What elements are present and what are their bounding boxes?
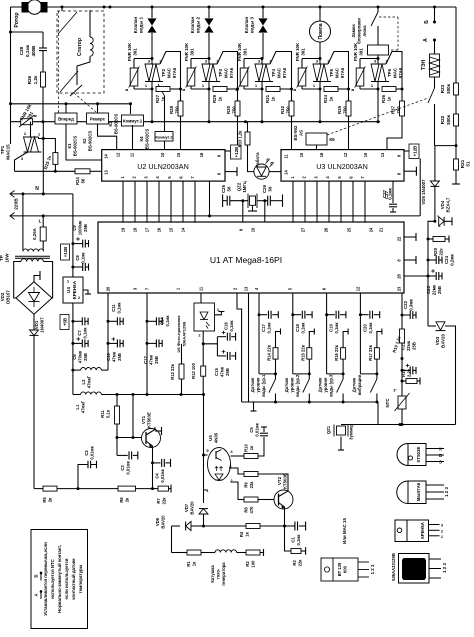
svg-text:L2: L2 — [81, 379, 86, 385]
svg-text:R27: R27 — [155, 94, 160, 103]
resistor R1 1k — [172, 552, 188, 554]
svg-text:МАС: МАС — [335, 67, 340, 78]
optocoupler U5 4N35 — [208, 448, 231, 481]
svg-text:300к: 300к — [446, 114, 451, 125]
svg-text:U6 Фото-приемник: U6 Фото-приемник — [176, 316, 181, 353]
svg-text:10: 10 — [363, 152, 368, 157]
svg-text:C12: C12 — [143, 355, 148, 363]
capacitor C20 0,1mk — [360, 314, 368, 316]
pump M2 — [319, 6, 322, 9]
wire VD1 down to R5 — [33, 336, 35, 489]
svg-text:BZX4,7: BZX4,7 — [446, 197, 451, 212]
capacitor C1 0,1mk — [285, 525, 295, 527]
stator drop right — [109, 6, 112, 9]
resistor R4 1k — [246, 524, 260, 529]
svg-text:C18: C18 — [295, 323, 300, 331]
svg-text:0,1мк: 0,1мк — [229, 320, 234, 332]
svg-text:КТ503Е: КТ503Е — [416, 447, 421, 463]
svg-text:u: u — [292, 88, 297, 91]
resistor R33 1,2k — [245, 132, 250, 145]
ground tacho — [260, 552, 264, 554]
capacitor C2 0,01mk — [78, 465, 88, 489]
resistor R12 22k — [181, 344, 183, 364]
svg-text:5,1к: 5,1к — [106, 409, 111, 418]
svg-text:МАС: МАС — [393, 67, 398, 78]
svg-text:22к: 22к — [439, 248, 444, 256]
svg-text:15: 15 — [168, 227, 173, 232]
svg-text:R26: R26 — [27, 75, 32, 84]
svg-text:R18: R18 — [401, 368, 406, 376]
motor M1 rotor — [27, 0, 41, 14]
svg-text:КРЕН5А: КРЕН5А — [72, 280, 77, 299]
svg-text:R10: R10 — [244, 443, 249, 451]
svg-text:К1: К1 — [67, 143, 72, 149]
tacho generator coil — [201, 552, 215, 554]
pin22 ground stub — [404, 236, 413, 238]
wire LED to U3 pin14 — [269, 171, 281, 173]
wire U1 pin2 down — [237, 293, 242, 402]
node top TR4 — [261, 57, 264, 60]
svg-text:C7: C7 — [77, 330, 82, 336]
ground R21 — [455, 170, 457, 184]
svg-text:C5: C5 — [249, 427, 254, 433]
svg-text:C11: C11 — [111, 304, 116, 312]
svg-text:R3: R3 — [292, 560, 297, 566]
transistor VT2 KT503E — [274, 490, 293, 509]
wire U1 pin13 down — [248, 293, 250, 402]
wire sensor jog 3 — [327, 373, 344, 375]
svg-text:тахо-: тахо- — [216, 568, 221, 579]
svg-text:Реверс: Реверс — [90, 116, 106, 121]
wire sensor jog 1 — [259, 373, 276, 375]
switch sensor 3 — [337, 379, 344, 393]
svg-text:ТР4: ТР4 — [271, 68, 276, 77]
triac TR6 MAC97A6 — [377, 59, 379, 65]
svg-text:25В: 25В — [437, 286, 442, 294]
wire left bus — [10, 7, 12, 144]
svg-text:уровня: уровня — [256, 377, 261, 392]
svg-text:1к: 1к — [329, 96, 334, 101]
svg-text:R6: R6 — [119, 497, 124, 503]
svg-text:BAV20: BAV20 — [161, 515, 166, 529]
wire VT2 emitter — [284, 512, 286, 526]
svg-text:BAV20: BAV20 — [190, 501, 195, 515]
svg-text:750: 750 — [343, 106, 348, 114]
wire emitter bus — [204, 525, 247, 527]
crystal QZ2 1MHz — [250, 196, 256, 205]
capacitor C25 56 — [222, 194, 224, 207]
wire U1 pin11 to U6 — [200, 293, 202, 303]
svg-text:Датчик: Датчик — [318, 377, 323, 392]
wire TR6 bottom node — [360, 88, 378, 90]
capacitor C27 0,1mk — [392, 181, 394, 203]
svg-text:47мк: 47мк — [220, 366, 225, 377]
svg-text:97А6: 97А6 — [229, 67, 234, 78]
svg-text:FNR 10K: FNR 10K — [295, 42, 300, 61]
svg-text:10: 10 — [160, 152, 165, 157]
dashed link reverse — [74, 93, 96, 112]
triac TR2 MAC97A6 — [151, 59, 153, 65]
svg-text:R21: R21 — [460, 159, 465, 168]
wire K1 contact drop — [65, 104, 67, 113]
wire right bus upper — [455, 7, 457, 83]
svg-text:К: К — [439, 447, 442, 452]
wire U2 to L rail — [209, 181, 211, 216]
capacitor C10 47mk — [107, 342, 110, 345]
IC U3 ULN2003AN — [281, 150, 404, 182]
optocoupler U6 photo receiver — [194, 303, 215, 331]
svg-text:К3: К3 — [108, 121, 113, 127]
resistor R31 1k — [266, 87, 280, 92]
svg-text:КРЕН5А: КРЕН5А — [420, 522, 425, 539]
svg-text:ТР1: ТР1 — [0, 145, 5, 154]
wire VT1 base — [132, 395, 134, 438]
svg-text:Мас97А6: Мас97А6 — [416, 482, 421, 501]
resistor R18 2,2k — [401, 370, 403, 381]
switch sensor 1 — [269, 379, 276, 393]
svg-text:МАС: МАС — [224, 67, 229, 78]
resistor R9 22k — [229, 468, 244, 474]
resistor R2 100 — [246, 550, 260, 555]
dashed link K5 to heater switch — [327, 98, 428, 135]
resistor R15 22k — [309, 332, 314, 348]
svg-text:R28: R28 — [169, 105, 174, 114]
diode VD6 BAV20 — [172, 525, 181, 527]
svg-text:536АА33129В: 536АА33129В — [391, 553, 396, 581]
capacitor C8 0,1mk — [71, 266, 74, 269]
stator switch upper — [58, 12, 77, 34]
svg-text:U5: U5 — [208, 435, 213, 441]
svg-text:FNR 10K: FNR 10K — [184, 42, 189, 61]
svg-text:25В: 25В — [154, 356, 159, 364]
svg-text:391: 391 — [359, 48, 364, 56]
bridge plus tap — [34, 276, 40, 282]
svg-text:C3: C3 — [120, 465, 125, 471]
relay K5 BS-902AS — [306, 133, 327, 145]
resistor R21 51 — [455, 146, 457, 159]
capacitor C23 22mk polarized — [428, 275, 436, 277]
svg-text:1 2 3: 1 2 3 — [442, 563, 447, 573]
svg-text:R11: R11 — [100, 410, 105, 418]
svg-text:0,1мк: 0,1мк — [334, 322, 339, 334]
wire L to pin9 riser — [419, 159, 421, 216]
svg-text:1,2к: 1,2к — [33, 75, 38, 84]
wires crystal to U1 — [242, 201, 244, 222]
svg-text:47мк: 47мк — [112, 351, 117, 362]
svg-text:FNR 10K: FNR 10K — [127, 42, 132, 61]
svg-text:КТ503Е: КТ503Е — [283, 473, 288, 489]
door lock dashed link — [379, 16, 398, 18]
svg-text:25В: 25В — [83, 224, 88, 232]
svg-text:27: 27 — [300, 227, 305, 232]
svg-text:VD4: VD4 — [440, 200, 445, 209]
svg-text:25В: 25В — [83, 353, 88, 361]
svg-text:750: 750 — [232, 106, 237, 114]
package BT139 TO-220 — [321, 558, 358, 581]
svg-text:VD3: VD3 — [435, 336, 440, 345]
svg-text:51: 51 — [466, 161, 471, 167]
svg-text:750: 750 — [286, 106, 291, 114]
svg-text:Датчик: Датчик — [284, 377, 289, 392]
svg-text:U3 ULN2003AN: U3 ULN2003AN — [316, 162, 368, 171]
wire L rail — [43, 215, 420, 217]
svg-text:Клапан: Клапан — [244, 17, 249, 34]
wire U1 pin to sensor 4 — [359, 293, 361, 374]
svg-text:1МГц: 1МГц — [242, 181, 247, 193]
svg-text:U2 ULN2003AN: U2 ULN2003AN — [137, 162, 189, 171]
svg-text:23: 23 — [396, 286, 401, 291]
resistor R11 5,1k — [115, 406, 120, 424]
wire sensor common bus — [341, 424, 456, 426]
svg-text:блокировки: блокировки — [357, 18, 362, 44]
svg-text:BS-902: BS-902 — [293, 125, 298, 140]
svg-text:C15: C15 — [214, 367, 219, 375]
wire TR1 MT1 to R25 — [39, 137, 44, 139]
terminal A — [433, 39, 436, 42]
wire N column — [42, 122, 44, 194]
svg-text:R33 1,2к: R33 1,2к — [238, 130, 243, 148]
svg-text:МАС: МАС — [167, 67, 172, 78]
svg-text:К4: К4 — [139, 136, 144, 142]
svg-text:Коммут.2: Коммут.2 — [155, 136, 172, 140]
stator dashed outline — [57, 11, 104, 93]
svg-text:14: 14 — [104, 154, 109, 159]
diode VD5 1N4007 — [434, 146, 436, 181]
svg-text:ТР2: ТР2 — [161, 68, 166, 77]
svg-text:C17: C17 — [261, 323, 266, 331]
triac TR1 MAC15 — [30, 122, 32, 137]
resistor R8 470 — [231, 482, 245, 500]
svg-text:R1: R1 — [186, 561, 191, 567]
svg-text:391: 391 — [133, 48, 138, 56]
svg-text:AS: AS — [299, 130, 304, 136]
svg-text:Клапан: Клапан — [190, 17, 195, 34]
capacitor C15 47mk — [216, 344, 218, 356]
capacitor C21 22mk — [401, 359, 403, 371]
plus5 box — [60, 315, 69, 330]
svg-text:Ротор: Ротор — [14, 12, 20, 27]
svg-text:воды 1: воды 1 — [139, 16, 144, 33]
svg-text:R8: R8 — [244, 507, 249, 513]
svg-text:VD6: VD6 — [155, 517, 160, 526]
resistor R27 1k — [156, 87, 170, 92]
svg-text:C26: C26 — [262, 184, 267, 193]
svg-text:25В: 25В — [412, 342, 417, 350]
svg-text:воды (ур.2): воды (ур.2) — [295, 373, 300, 397]
svg-text:0,1мк: 0,1мк — [165, 315, 170, 327]
relay К2 Реверс box — [87, 113, 109, 124]
capacitor C28 0,1mk 400V — [9, 31, 12, 34]
wire R26 to bus — [42, 87, 44, 122]
svg-text:N: N — [35, 186, 39, 192]
capacitor C3 0,01mk — [117, 454, 128, 456]
svg-text:1к: 1к — [271, 96, 276, 101]
varistor FNR 10K 391 (TR5) — [302, 58, 320, 60]
wire lowvolt bus — [101, 394, 204, 396]
wire tacho left leg — [171, 526, 173, 553]
transformer T1 — [23, 249, 44, 252]
svg-text:1000мк: 1000мк — [78, 220, 83, 235]
crystal case ground — [252, 205, 254, 211]
svg-text:C14: C14 — [160, 316, 165, 324]
svg-text:К5: К5 — [329, 137, 335, 142]
wire R37 to driver — [387, 116, 402, 150]
package Mac97A6 TO-92 — [397, 481, 426, 504]
svg-text:13: 13 — [380, 152, 385, 157]
svg-text:0,1мк: 0,1мк — [83, 327, 88, 339]
svg-text:Датчик: Датчик — [250, 377, 255, 392]
svg-text:если используется: если используется — [64, 558, 69, 599]
svg-text:L: L — [39, 219, 42, 224]
capacitor C16 0,1mk — [203, 337, 217, 344]
wire U2 to U1 pins — [122, 181, 124, 222]
wire K3 to U2 — [132, 125, 134, 150]
wire K3 contact drop — [130, 104, 132, 114]
wire 12V rail down — [72, 244, 74, 277]
wire K5 to U3 — [316, 145, 318, 150]
U2 ground pin8 — [225, 171, 237, 173]
wire sensor jog 4 — [360, 373, 377, 375]
resistor R36 1k — [382, 87, 396, 92]
capacitor C7 0,1mk — [71, 320, 74, 323]
svg-text:97А6: 97А6 — [172, 67, 177, 78]
valve Y1 — [151, 6, 154, 9]
svg-text:ТР6: ТР6 — [387, 68, 392, 77]
resistor R16 22k — [343, 332, 348, 348]
svg-text:Замок: Замок — [351, 24, 356, 38]
U3 ground pin8 — [404, 170, 416, 172]
svg-text:C1: C1 — [291, 537, 296, 543]
svg-text:C22: C22 — [403, 300, 408, 309]
svg-text:используется NTC: используется NTC — [50, 558, 55, 598]
svg-text:13: 13 — [243, 286, 248, 291]
transistor VT1 KT503E — [142, 429, 161, 448]
svg-text:L1: L1 — [75, 404, 80, 410]
wire TR2 MT2 lead — [160, 52, 181, 90]
door lock coil — [368, 45, 389, 55]
svg-text:4N35: 4N35 — [214, 432, 219, 443]
resistor R17 22k — [377, 332, 382, 348]
svg-text:R12 22к: R12 22к — [170, 363, 175, 380]
triac TR4 MAC97A6 — [261, 59, 263, 65]
svg-text:0,1мк: 0,1мк — [388, 187, 393, 199]
svg-text:25: 25 — [346, 227, 351, 232]
svg-text:R5: R5 — [42, 497, 47, 503]
valve Y3 — [262, 6, 265, 9]
wire TR5 bottom node — [302, 88, 320, 90]
varistor FNR 10K 391 (TR4) — [244, 58, 262, 60]
svg-text:ТР: ТР — [0, 255, 4, 261]
capacitor C14 0,1mk — [146, 320, 149, 323]
wire neutral return bus — [11, 121, 381, 123]
wire U1 pin to sensor 3 — [326, 293, 328, 374]
svg-text:Б: Б — [34, 574, 39, 577]
wire N to rail — [43, 193, 73, 195]
wire R32 to driver — [291, 116, 293, 150]
VT1 collector bar — [155, 430, 162, 432]
svg-text:Катушка: Катушка — [210, 565, 215, 583]
wire R11 to C3 — [116, 424, 118, 455]
node top TR3 — [208, 57, 211, 60]
svg-text:0,3мк: 0,3мк — [409, 298, 414, 310]
dashed stator to K1 — [57, 11, 59, 113]
svg-text:C4: C4 — [155, 473, 160, 479]
svg-text:17: 17 — [144, 227, 149, 232]
svg-text:R22: R22 — [440, 115, 445, 124]
svg-text:22к: 22к — [298, 559, 303, 567]
svg-text:ВТ 139: ВТ 139 — [337, 562, 342, 576]
svg-text:Помпа: Помпа — [318, 23, 324, 39]
svg-text:U1 AT Mega8-16PI: U1 AT Mega8-16PI — [210, 255, 282, 265]
svg-text:К2: К2 — [82, 138, 87, 144]
svg-text:10: 10 — [250, 227, 255, 232]
svg-text:люка: люка — [362, 25, 367, 37]
wire bottom-left loop — [34, 488, 43, 490]
svg-text:Э: Э — [439, 460, 442, 465]
svg-text:0,2мк: 0,2мк — [450, 253, 455, 265]
svg-text:C20: C20 — [362, 323, 367, 331]
svg-text:Зуммер: Зуммер — [349, 424, 354, 440]
svg-text:u: u — [181, 88, 186, 91]
resistor R6 2k — [78, 488, 118, 490]
node top TR6 — [377, 57, 380, 60]
svg-text:0,01мк: 0,01мк — [255, 422, 260, 436]
svg-text:VD1: VD1 — [34, 320, 39, 329]
svg-text:18: 18 — [132, 227, 137, 232]
svg-text:0,1мк: 0,1мк — [81, 252, 86, 264]
U2 +12V box — [225, 150, 231, 152]
node top TR5 — [319, 57, 322, 60]
wire 5V rail down — [72, 303, 74, 395]
svg-text:R35: R35 — [337, 105, 342, 114]
terminal L — [10, 213, 15, 220]
diode VD1 1N4007 — [33, 314, 35, 330]
capacitor C9 1000mk — [71, 242, 74, 245]
svg-text:19: 19 — [120, 227, 125, 232]
svg-text:Работа: Работа — [255, 152, 260, 168]
svg-text:47мк: 47мк — [149, 354, 154, 365]
package KT503E TO-92 — [397, 444, 426, 466]
svg-text:DB107: DB107 — [6, 290, 11, 304]
wire TR6 MT2 lead — [386, 52, 402, 90]
wire TR1 gate — [15, 152, 28, 171]
thermistor NTC — [401, 381, 403, 396]
package 536AA33129B — [399, 554, 430, 584]
svg-text:VD7: VD7 — [184, 503, 189, 512]
svg-text:R4: R4 — [239, 531, 244, 537]
svg-text:Б: Б — [439, 453, 442, 458]
svg-text:QZ1: QZ1 — [326, 425, 331, 434]
wire TR3 MT2 lead — [217, 52, 238, 90]
capacitor C6 470mk — [71, 342, 74, 345]
svg-text:12: 12 — [343, 152, 348, 157]
svg-text:генератора: генератора — [221, 562, 226, 586]
svg-text:+12В: +12В — [63, 247, 68, 257]
svg-text:R9: R9 — [244, 482, 249, 488]
wire U1 pin to sensor 1 — [258, 293, 260, 374]
svg-text:391: 391 — [301, 48, 306, 56]
wire heater node to right bus — [435, 145, 457, 147]
svg-text:вибрации: вибрации — [357, 374, 362, 395]
pin8 ground stub — [404, 259, 416, 261]
svg-text:28: 28 — [397, 274, 402, 279]
svg-text:R7: R7 — [156, 498, 161, 504]
stator drop left — [61, 6, 64, 9]
wire R4 to node — [260, 525, 285, 527]
svg-text:22мк: 22мк — [432, 284, 437, 295]
svg-text:контактный датчик: контактный датчик — [71, 558, 76, 600]
svg-text:температуры: температуры — [78, 564, 83, 593]
